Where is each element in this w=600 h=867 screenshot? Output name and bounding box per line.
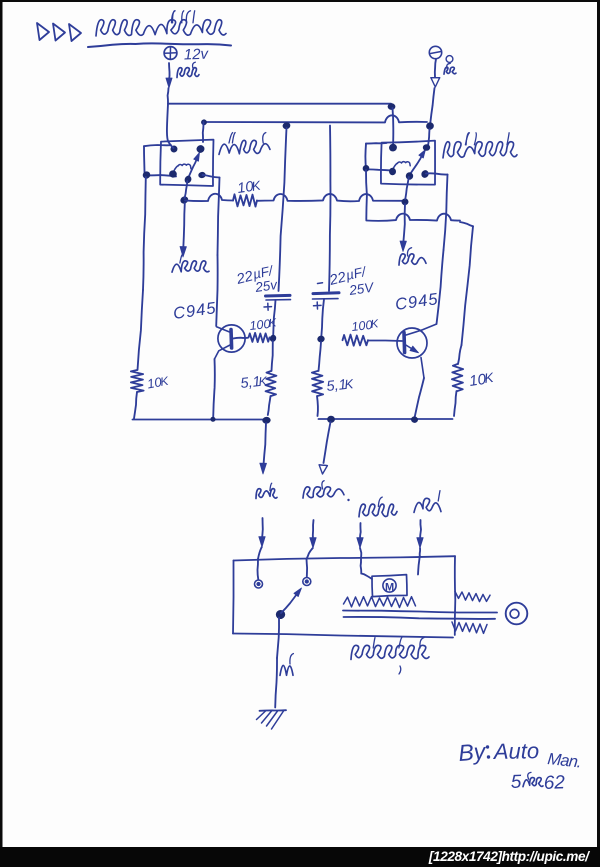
relay K2 box <box>381 141 435 185</box>
label green (Thai) <box>399 254 426 265</box>
label blue2 (Thai) <box>359 504 397 517</box>
resistor R2 100K <box>249 333 270 343</box>
Q2 base bar <box>402 333 406 353</box>
wire Q1 emitter down <box>213 359 215 418</box>
frame right <box>597 0 600 847</box>
rod top <box>343 611 497 613</box>
node rail1 end <box>402 198 409 205</box>
Q1 base bar <box>229 330 233 349</box>
wire K2 pivot down <box>405 177 409 199</box>
svg-text:By: By <box>458 738 488 766</box>
node emitter1 rail <box>211 417 216 422</box>
wire neg to relay2 <box>428 129 430 146</box>
wire K2 NC to Q2 collector <box>426 173 448 174</box>
Q1 leads <box>233 337 248 340</box>
spring right upper <box>455 592 490 602</box>
resistor R3 100K <box>343 335 369 346</box>
actuator box <box>234 556 456 560</box>
wire K1 pivot down <box>185 181 188 198</box>
relay K1 outer contact box <box>144 145 171 146</box>
svg-text:[1228x1742]http://upic.me/: [1228x1742]http://upic.me/ <box>428 849 590 864</box>
spring right lower <box>452 622 487 633</box>
resistor R7 10K right <box>452 364 463 391</box>
red wire arrow <box>168 63 171 80</box>
wire K1 NC to Q1 collector <box>203 175 220 178</box>
white arrow 2 <box>261 518 264 539</box>
capacitor C2 22uF <box>313 291 339 295</box>
resistor R1 10K <box>233 194 257 206</box>
node cap1 tap <box>282 122 290 129</box>
second rail <box>204 115 428 122</box>
svg-text:Man.: Man. <box>547 750 582 771</box>
ground symbol <box>260 709 287 712</box>
wire rail to relay2 <box>392 108 395 147</box>
node emitter2 rail <box>411 416 418 423</box>
supply +12V symbol <box>164 47 177 60</box>
wire col1 into box <box>257 559 260 580</box>
node neg junction <box>426 122 435 130</box>
wire R6 to rail <box>316 396 319 416</box>
green2 arrow <box>420 520 421 540</box>
wire K2 outer down <box>365 170 368 220</box>
top rail wire <box>168 103 391 105</box>
switch lever <box>281 593 298 614</box>
frame top <box>0 0 600 2</box>
label white (Thai) <box>256 489 277 499</box>
title text (Thai) central-lock circuit <box>96 20 226 36</box>
wire node to R6 <box>319 342 322 371</box>
white branch <box>264 423 267 465</box>
title underline <box>88 43 160 47</box>
wire node to R5 <box>272 341 273 371</box>
wire col3 to motor <box>360 559 363 574</box>
node Q1 base net <box>269 334 276 342</box>
relay K2 coil <box>393 162 411 170</box>
switch pivot <box>275 609 286 620</box>
relay K1 pin dots <box>170 145 178 153</box>
svg-text:12v: 12v <box>184 46 210 64</box>
wire corner down to relay1 <box>202 122 205 142</box>
wire supply to K1 <box>167 104 174 148</box>
motor M1 frame <box>372 575 407 597</box>
resistor R5 5.1K <box>266 371 277 396</box>
transistor Q2 C945 circle <box>397 328 427 358</box>
wire col4 to motor <box>418 556 420 575</box>
rack teeth <box>344 597 416 608</box>
motor M1 symbol <box>383 579 396 592</box>
label green2 (Thai) <box>414 498 441 512</box>
supply -12V symbol <box>429 46 441 58</box>
frame left <box>0 0 3 847</box>
relay K1 lever <box>188 157 198 179</box>
label actuator (Thai) <box>351 645 429 659</box>
wire rail1 right <box>257 194 404 201</box>
label red (Thai) <box>177 68 199 78</box>
label brown (Thai) <box>303 487 344 498</box>
Q2 leads <box>369 340 403 343</box>
relay K2 lever <box>410 154 424 176</box>
label black (Thai) <box>446 56 453 63</box>
title arrows <box>37 23 49 40</box>
wire R7 to rail <box>454 391 457 416</box>
node second rail left <box>201 119 207 125</box>
terminal T1 <box>255 580 263 588</box>
wire R4 to rail <box>134 392 137 419</box>
node rail1 start <box>180 196 189 205</box>
mech rail <box>366 214 460 221</box>
bottom rail left <box>133 419 270 421</box>
resistor R4 10K left <box>131 370 144 392</box>
blue branch wire <box>183 203 185 248</box>
transistor Q1 C945 circle <box>218 325 245 352</box>
svg-text:5: 5 <box>510 772 522 793</box>
label black2 (Thai) <box>280 665 293 675</box>
bottom bar <box>0 847 600 867</box>
label relay-lock (Thai) <box>219 140 270 154</box>
terminal T2 <box>303 578 311 586</box>
capacitor C1 22uF <box>266 294 291 298</box>
brown branch <box>324 422 331 463</box>
wire Q2 emitter down <box>415 378 425 418</box>
node top rail junction <box>388 104 395 110</box>
green branch wire <box>403 204 405 243</box>
svg-text:M: M <box>385 582 394 594</box>
node white tap <box>263 417 271 424</box>
wire cap2 to node <box>321 299 324 337</box>
knob ring <box>506 603 528 625</box>
wire R5 to rail <box>268 396 271 415</box>
wire left long <box>143 177 146 290</box>
resistor R6 5.1K <box>312 371 323 396</box>
wire + to rail <box>167 88 170 104</box>
black wire w arrow <box>435 59 436 77</box>
wire cap2 from rail <box>329 126 330 292</box>
brown arrow 2 <box>312 520 315 540</box>
wire cap1 to node <box>273 300 275 336</box>
wire col2 into box <box>306 559 309 577</box>
wire rail1 left <box>185 194 233 201</box>
node Q2 base net <box>317 336 324 343</box>
relay K2 outer contact box <box>366 142 387 145</box>
switch wire down <box>277 618 279 659</box>
wire cap1 from rail <box>279 128 287 291</box>
node brown tap <box>327 416 334 423</box>
svg-text:Auto: Auto <box>492 738 540 764</box>
label relay-unlock (Thai) <box>443 142 517 158</box>
relay K2 pin dots <box>389 143 398 152</box>
relay K1 coil <box>173 164 191 173</box>
blue2 arrow <box>359 523 362 540</box>
rod bottom <box>344 617 496 619</box>
bottom rail right <box>319 418 453 420</box>
svg-text:62: 62 <box>543 772 565 794</box>
label blue (Thai) <box>172 261 209 272</box>
relay K1 box <box>160 140 213 186</box>
